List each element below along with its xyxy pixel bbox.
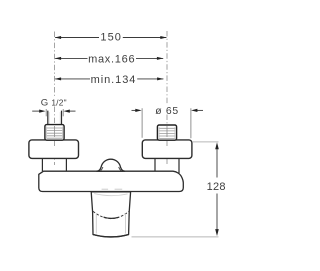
svg-text:150: 150	[100, 32, 122, 44]
svg-text:128: 128	[207, 181, 226, 193]
svg-text:ø 65: ø 65	[155, 106, 179, 117]
svg-text:G 1/2": G 1/2"	[41, 97, 67, 108]
svg-text:max.166: max.166	[88, 54, 135, 66]
svg-text:min.134: min.134	[91, 74, 137, 86]
